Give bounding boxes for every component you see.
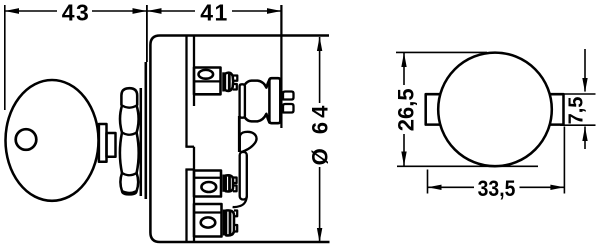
- wire stem below connector: [238, 116, 241, 152]
- dimension 26,5 line: [403, 53, 405, 166]
- dimension 7,5 arrow down: [582, 78, 587, 92]
- dimension 7,5 arrow up: [582, 127, 587, 141]
- terminal block 1: [194, 68, 221, 95]
- dimension 43 arrow right: [133, 8, 147, 14]
- dimension 33,5 arrow left: [428, 185, 442, 190]
- dimension 33,5 right extension line: [563, 127, 565, 194]
- dimension 33,5 arrow right: [550, 185, 564, 190]
- lock cylinder dome: [121, 88, 137, 105]
- screw 2 slot: [228, 175, 231, 192]
- contact flag: [240, 132, 257, 152]
- screw 3 washer: [223, 210, 226, 236]
- dimension 26,5 / 33,5 shared bottom extension line: [397, 165, 538, 167]
- dimension 33,5 line: [428, 186, 565, 188]
- sleeve 2 bottom hook: [233, 196, 247, 207]
- dimension 41 arrow right: [267, 8, 281, 14]
- body interior line A2: [185, 170, 187, 242]
- mounting hole circle: [438, 53, 552, 167]
- spade connector sleeve bulge: [245, 80, 270, 123]
- key head: [6, 80, 99, 201]
- dimension 33,5 left extension line: [427, 170, 429, 194]
- screw 3 tooth top: [234, 211, 237, 217]
- spade connector prong bottom: [283, 104, 294, 113]
- dimension D64 arrow bottom: [317, 228, 322, 243]
- terminal block 3: [194, 204, 222, 237]
- svg-text:41: 41: [200, 0, 229, 26]
- terminal block 2: [194, 171, 221, 197]
- dimension 41 arrow left: [147, 8, 161, 14]
- terminal block 3 divider: [194, 211, 222, 213]
- dimension 26,5 arrow bottom: [401, 152, 406, 166]
- dimension 41 line: [147, 10, 281, 12]
- lock cylinder barrel 2: [120, 106, 139, 133]
- screw 3 head: [226, 210, 234, 235]
- lock plate line: [140, 88, 143, 196]
- screw 1 washer: [222, 72, 225, 91]
- lock cylinder barrel 2 bottom arc: [122, 133, 137, 135]
- spade connector prong top: [283, 92, 294, 100]
- dimension 43 line: [5, 10, 147, 12]
- mounting hole left tab: [426, 94, 441, 124]
- screw 2 tooth bottom: [233, 186, 237, 192]
- key collar outer: [99, 124, 107, 162]
- dimension 7,5 top extension line: [560, 93, 596, 95]
- terminal block 3 hole: [201, 217, 216, 227]
- body interior line C: [193, 147, 195, 241]
- lock cylinder bottom cap: [122, 191, 137, 195]
- mounting hole right tab: [550, 94, 564, 124]
- svg-text:33,5: 33,5: [478, 177, 516, 201]
- lock cylinder barrel 3: [120, 133, 139, 174]
- terminal block 2 divider: [194, 177, 221, 179]
- screw 3 slot: [229, 210, 232, 236]
- dimension 7,5 line top: [584, 49, 586, 92]
- dimension D64 line: [319, 37, 321, 242]
- key head hole: [16, 129, 37, 150]
- dimension 7,5 line bottom: [584, 127, 586, 150]
- screw 3 tooth bottom: [234, 225, 237, 232]
- dimension 26,5 top extension line: [396, 51, 487, 53]
- screw 1 tooth top: [233, 76, 238, 81]
- dimension 43 extension line left: [4, 5, 6, 110]
- dimension 26,5 arrow top: [401, 53, 406, 67]
- body interior jog 2: [185, 168, 194, 170]
- body interior line A: [185, 37, 187, 147]
- switch body outline: [150, 36, 329, 243]
- svg-text:7,5: 7,5: [566, 97, 588, 125]
- spade connector collar: [240, 84, 245, 117]
- dimension 7,5 bottom extension line: [560, 124, 596, 126]
- body interior line B: [193, 37, 195, 107]
- screw 1 head: [225, 73, 233, 91]
- screw 2 washer: [222, 175, 225, 192]
- key collar inner: [107, 133, 116, 157]
- body interior jog 1: [185, 146, 194, 148]
- terminal block 1 hole: [199, 70, 214, 79]
- terminal block 2 hole: [201, 182, 216, 192]
- switch body right edge / 41 extension: [280, 5, 282, 128]
- dimension D64 arrow top: [317, 37, 322, 51]
- lock cylinder barrel 3 bottom arc: [122, 173, 137, 175]
- sleeve 2 (edge view): [240, 152, 247, 200]
- screw 2 head: [226, 175, 233, 191]
- extension line between 43 and 41 / plate line: [146, 5, 148, 62]
- svg-text:43: 43: [62, 0, 91, 26]
- lock cylinder dome bottom arc: [122, 106, 137, 108]
- svg-text:Ø 64: Ø 64: [308, 102, 333, 166]
- dimension 43 arrow left: [5, 8, 19, 14]
- svg-text:26,5: 26,5: [394, 88, 419, 131]
- screw 2 tooth top: [233, 178, 237, 184]
- lock cylinder blob 4: [120, 173, 138, 191]
- screw 1 slot: [228, 73, 231, 92]
- spade connector face plate: [269, 78, 280, 123]
- screw 1 tooth bottom: [233, 84, 237, 90]
- terminal block 1 divider: [194, 80, 221, 82]
